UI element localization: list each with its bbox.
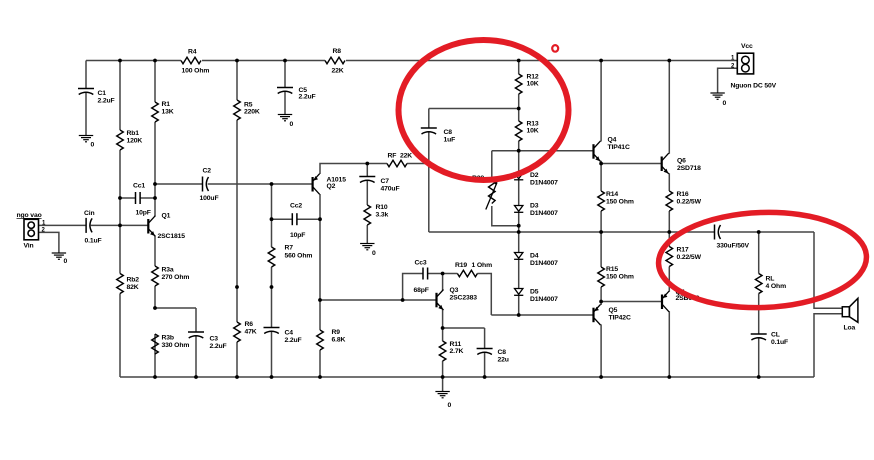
wire Q2 emitter feedback line RF — [320, 164, 429, 175]
svg-text:0.22/5W: 0.22/5W — [677, 199, 702, 206]
junction Q3 base at Q2 collector — [318, 298, 322, 302]
wire Q3 base line — [320, 299, 437, 301]
svg-text:2SC2383: 2SC2383 — [450, 295, 478, 302]
junction Q3 collector node — [441, 272, 445, 276]
svg-text:R15: R15 — [606, 266, 618, 273]
resistor R6 — [234, 321, 257, 342]
svg-text:Q3: Q3 — [450, 287, 459, 294]
svg-text:560 Ohm: 560 Ohm — [285, 253, 313, 260]
svg-text:C2: C2 — [203, 168, 212, 175]
svg-text:Vcc: Vcc — [741, 43, 753, 50]
svg-text:22K: 22K — [332, 68, 344, 75]
svg-text:RL: RL — [766, 276, 775, 283]
capacitor Cc2 — [290, 203, 305, 240]
diode D4 — [514, 253, 558, 268]
svg-text:R12: R12 — [527, 74, 539, 81]
junction R3a/R3b node — [153, 306, 157, 310]
connector Vin (ngo vao) — [17, 212, 47, 250]
junction D5 bottom node — [517, 313, 521, 317]
wire Q5 emitter node to Q7 base — [601, 301, 662, 303]
svg-text:10K: 10K — [527, 81, 539, 88]
svg-text:R17: R17 — [677, 247, 689, 254]
wire R13 node to Q4 base — [492, 150, 594, 152]
svg-text:R5: R5 — [244, 102, 253, 109]
svg-text:R11: R11 — [450, 341, 462, 348]
svg-text:R6: R6 — [245, 321, 254, 328]
wire Rb1/Rb2 branch — [119, 61, 121, 378]
capacitor CL — [751, 332, 788, 347]
resistor R13 — [515, 121, 539, 142]
wire Vin pin2 to ground — [39, 232, 59, 253]
svg-text:R13: R13 — [527, 121, 539, 128]
diode D3 — [514, 203, 558, 218]
wire R7/C4 branch — [271, 184, 273, 377]
svg-text:R3a: R3a — [162, 267, 174, 274]
svg-text:0: 0 — [448, 402, 452, 409]
junction C2 right / R7 top — [270, 182, 274, 186]
wire Q4 emitter to Q6 base — [601, 161, 662, 164]
wire C5 branch — [284, 61, 286, 115]
svg-text:R7: R7 — [285, 245, 294, 252]
svg-text:470uF: 470uF — [381, 186, 400, 193]
transistor Q2 A1015 — [313, 174, 347, 195]
resistor R14 — [598, 191, 634, 211]
svg-text:10pF: 10pF — [290, 232, 305, 239]
junction bottom rail at CL — [757, 375, 761, 379]
svg-text:0: 0 — [91, 142, 95, 149]
resistor R8 — [325, 48, 345, 75]
ground below R10 — [360, 244, 376, 258]
variable resistor R28 — [472, 175, 498, 210]
junction bottom rail at Q5 — [599, 375, 603, 379]
resistor R16 — [666, 191, 702, 211]
junction Cc2 right — [318, 217, 322, 221]
wire Q3 collector — [442, 274, 444, 291]
svg-text:R9: R9 — [332, 329, 341, 336]
junction bottom rail at C3 — [194, 375, 198, 379]
svg-text:D1N4007: D1N4007 — [530, 260, 558, 267]
capacitor C7 — [359, 177, 399, 193]
junction R7 bottom node right — [270, 285, 274, 289]
resistor R11 — [439, 341, 463, 361]
svg-text:100uF: 100uF — [200, 195, 219, 202]
resistor R5 — [234, 100, 260, 120]
wire C8 bootstrap branch — [429, 109, 519, 233]
svg-text:D1N4007: D1N4007 — [530, 296, 558, 303]
junction C8 top at R12/R13 — [517, 107, 521, 111]
svg-text:150 Ohm: 150 Ohm — [606, 274, 634, 281]
svg-text:RF: RF — [388, 153, 397, 160]
svg-text:2.7K: 2.7K — [450, 348, 464, 355]
capacitor C8 bootstrap — [421, 128, 455, 144]
svg-text:R14: R14 — [606, 191, 618, 198]
connector Vcc — [731, 43, 777, 90]
svg-text:120K: 120K — [127, 138, 143, 145]
junction output rail at R14 — [599, 230, 603, 234]
junction top rail at C5 — [283, 59, 287, 63]
capacitor C4 — [264, 328, 302, 345]
transistor Q3 2SC2383 — [437, 287, 478, 310]
wire Cc2 link — [272, 218, 321, 220]
junction R13 bottom node — [517, 149, 521, 153]
svg-text:R1: R1 — [162, 101, 171, 108]
svg-text:22u: 22u — [498, 357, 509, 364]
svg-text:D4: D4 — [530, 253, 539, 260]
wire Q3 emitter / R11 — [442, 309, 444, 391]
svg-text:82K: 82K — [127, 284, 139, 291]
capacitor C1 — [78, 89, 115, 105]
svg-text:3.3k: 3.3k — [376, 212, 389, 219]
junction R28 bottom — [517, 224, 521, 228]
svg-text:47K: 47K — [245, 329, 257, 336]
resistor R9 — [317, 329, 346, 350]
resistor R19 — [455, 262, 492, 277]
svg-text:0: 0 — [723, 100, 727, 107]
wire input base line — [39, 224, 149, 226]
svg-text:Q4: Q4 — [608, 137, 617, 144]
junction bottom rail at R6 — [235, 375, 239, 379]
svg-text:2.2uF: 2.2uF — [299, 94, 316, 101]
svg-text:C3: C3 — [210, 336, 219, 343]
svg-text:0: 0 — [64, 258, 68, 265]
transistor Q6 2SD718 — [662, 153, 701, 174]
resistor R10 — [364, 204, 389, 225]
svg-text:10K: 10K — [527, 128, 539, 135]
svg-text:R19: R19 — [455, 262, 467, 269]
junction bottom rail at R11 — [441, 375, 445, 379]
svg-text:Cc3: Cc3 — [415, 260, 427, 267]
junction top rail at R1 — [153, 59, 157, 63]
svg-text:0.1uF: 0.1uF — [85, 238, 102, 245]
diode D2 — [514, 172, 558, 187]
svg-text:R3b: R3b — [162, 335, 174, 342]
junction Cc2 left — [270, 217, 274, 221]
svg-text:100 Ohm: 100 Ohm — [182, 68, 210, 75]
junction bottom rail at Q7 — [667, 375, 671, 379]
wire R3 node to C3 — [155, 308, 196, 377]
junction output rail at R16 — [667, 230, 671, 234]
wire Q2 collector / R9 branch — [319, 194, 321, 377]
junction RF at C8 — [427, 162, 431, 166]
svg-text:10pF: 10pF — [136, 210, 151, 217]
red annotation ellipse 1 — [399, 40, 569, 180]
junction Cc1 right — [153, 196, 157, 200]
resistor RF — [387, 153, 412, 167]
svg-text:D1N4007: D1N4007 — [530, 210, 558, 217]
ground at input — [52, 253, 68, 265]
resistor R3a — [152, 266, 190, 286]
junction C2 left — [153, 182, 157, 186]
ground below C1 — [79, 136, 95, 149]
diode D5 — [514, 289, 558, 304]
svg-text:330uF/50V: 330uF/50V — [717, 243, 750, 250]
junction Cc1 left — [118, 196, 122, 200]
transistor Q1 2SC1815 — [148, 213, 185, 241]
junction bottom rail at C4 — [270, 375, 274, 379]
wire output to speaker pin1 — [814, 232, 842, 308]
capacitor C8 emitter bypass — [477, 349, 509, 364]
capacitor Cc3 — [414, 260, 429, 295]
ground below C5 — [278, 115, 294, 129]
svg-text:CL: CL — [771, 332, 780, 339]
resistor R15 — [598, 266, 634, 287]
svg-text:6.8K: 6.8K — [332, 337, 346, 344]
wire R17 / Q7 emitter — [668, 232, 670, 292]
wire Vcc top rail — [86, 60, 737, 62]
svg-text:220K: 220K — [244, 109, 260, 116]
wire Q7 collector — [668, 311, 670, 377]
junction Q3 base at Cc3 — [401, 298, 405, 302]
svg-text:Q2: Q2 — [327, 183, 336, 190]
junction Q4 emitter node — [599, 162, 603, 166]
svg-text:Nguon DC 50V: Nguon DC 50V — [731, 83, 777, 90]
wire Q4 collector — [600, 61, 602, 142]
svg-text:270 Ohm: 270 Ohm — [162, 274, 190, 281]
svg-text:R8: R8 — [333, 48, 342, 55]
svg-text:22K: 22K — [400, 153, 412, 160]
svg-text:Q5: Q5 — [609, 307, 618, 314]
svg-text:2.2uF: 2.2uF — [210, 343, 227, 350]
resistor R7 — [268, 245, 312, 268]
wire C1 branch — [85, 61, 87, 136]
svg-text:330 Ohm: 330 Ohm — [162, 342, 190, 349]
svg-text:1 Ohm: 1 Ohm — [472, 262, 493, 269]
transistor Q4 TIP41C — [594, 137, 630, 162]
svg-text:0: 0 — [372, 250, 376, 257]
svg-text:D3: D3 — [530, 203, 539, 210]
wire R1 / Q1 collector-emitter branch — [154, 61, 156, 378]
wire Q6 collector — [668, 61, 670, 154]
svg-text:C1: C1 — [98, 90, 107, 97]
capacitor Cin — [84, 210, 102, 245]
svg-text:Q1: Q1 — [162, 213, 171, 220]
svg-text:68pF: 68pF — [414, 287, 429, 294]
resistor R17 — [666, 247, 702, 267]
svg-text:2.2uF: 2.2uF — [285, 337, 302, 344]
transistor Q5 TIP42C — [594, 304, 631, 325]
transistor Q7 2SB688 — [662, 289, 700, 312]
wire R5/R6 branch — [236, 61, 238, 378]
svg-text:Cc2: Cc2 — [290, 203, 302, 210]
wire C7/R10 branch — [366, 164, 368, 244]
capacitor Cc1 — [133, 183, 151, 217]
wire output rail — [429, 231, 814, 233]
wire R14 / R15 branch — [600, 164, 602, 302]
wire Cc1 link — [120, 197, 155, 199]
resistor R12 — [515, 74, 539, 95]
svg-text:0: 0 — [290, 121, 294, 128]
svg-text:R16: R16 — [677, 191, 689, 198]
wire Q6 emitter / R16 — [668, 173, 670, 232]
svg-text:4 Ohm: 4 Ohm — [766, 283, 787, 290]
svg-text:C8: C8 — [444, 129, 453, 136]
junction bottom rail at C8b — [483, 375, 487, 379]
svg-text:C4: C4 — [285, 330, 294, 337]
wire emitter node to C6 — [443, 328, 485, 377]
svg-text:Loa: Loa — [844, 325, 856, 332]
junction bottom rail at R9 — [318, 375, 322, 379]
resistor R4 — [181, 49, 209, 75]
capacitor C2 — [200, 168, 219, 203]
wire Cc3 loop — [403, 274, 443, 301]
ground below Vcc — [710, 93, 726, 107]
junction top rail at Q4 — [599, 59, 603, 63]
svg-text:D1N4007: D1N4007 — [530, 180, 558, 187]
wire R19 link — [443, 274, 492, 316]
svg-text:R4: R4 — [188, 49, 197, 56]
wire speaker pin2 to ground rail — [814, 314, 842, 377]
svg-text:R10: R10 — [376, 204, 388, 211]
junction top rail at R5 — [235, 59, 239, 63]
capacitor C3 — [188, 332, 227, 350]
junction bottom rail at R3b — [153, 375, 157, 379]
junction top rail at R12 — [517, 59, 521, 63]
svg-text:0.22/5W: 0.22/5W — [677, 254, 702, 261]
svg-text:TIP42C: TIP42C — [609, 315, 631, 322]
svg-text:Cc1: Cc1 — [133, 183, 145, 190]
junction output rail at RL — [757, 230, 761, 234]
svg-text:1uF: 1uF — [444, 137, 456, 144]
wire Vcc pin2 to ground — [718, 68, 737, 93]
resistor R1 — [152, 101, 174, 122]
svg-text:2SD718: 2SD718 — [677, 165, 701, 172]
svg-text:TIP41C: TIP41C — [608, 144, 630, 151]
junction top rail at Q6 — [667, 59, 671, 63]
svg-text:D2: D2 — [530, 172, 539, 179]
wire bias chain verticals — [518, 61, 520, 316]
ground below R11 — [435, 392, 451, 410]
wire RL / CL branch — [758, 232, 760, 377]
wire driver base line (to Q5) — [491, 314, 593, 316]
svg-text:D5: D5 — [530, 289, 539, 296]
speaker Loa — [842, 298, 858, 331]
svg-text:13K: 13K — [162, 109, 174, 116]
capacitor C5 — [277, 87, 316, 101]
resistor Rb2 — [117, 274, 140, 294]
red annotation ellipse 2 — [657, 209, 868, 311]
junction output rail at diode chain — [517, 230, 521, 234]
wire ground bottom rail — [120, 376, 814, 378]
svg-text:Rb2: Rb2 — [127, 277, 140, 284]
svg-text:Cin: Cin — [84, 210, 95, 217]
resistor R3b — [152, 334, 190, 354]
wire R28 loop — [492, 151, 519, 226]
resistor Rb1 — [117, 130, 143, 150]
junction Q3 emitter node — [441, 326, 445, 330]
svg-text:C8: C8 — [498, 349, 507, 356]
svg-text:150 Ohm: 150 Ohm — [606, 199, 634, 206]
svg-text:C7: C7 — [381, 178, 390, 185]
svg-text:0.1uF: 0.1uF — [771, 339, 788, 346]
svg-text:2.2uF: 2.2uF — [98, 98, 115, 105]
wire C2 link (Q1 collector to Q2 base) — [155, 183, 313, 185]
svg-text:ngo vao: ngo vao — [17, 212, 42, 219]
svg-text:Vin: Vin — [24, 243, 34, 250]
junction R7 bottom node left — [235, 285, 239, 289]
resistor RL — [755, 274, 786, 294]
junction top rail at Rb1 — [118, 59, 122, 63]
red annotation 0 mark — [552, 45, 558, 52]
svg-text:Q6: Q6 — [677, 158, 686, 165]
svg-text:Rb1: Rb1 — [127, 130, 140, 137]
wire Q5 body leads — [600, 302, 602, 378]
junction Q5 emitter node — [599, 300, 603, 304]
capacitor 330uF/50V output — [715, 225, 750, 250]
junction RF at C7 — [365, 162, 369, 166]
svg-text:2SC1815: 2SC1815 — [158, 233, 186, 240]
junction input node — [118, 224, 122, 228]
